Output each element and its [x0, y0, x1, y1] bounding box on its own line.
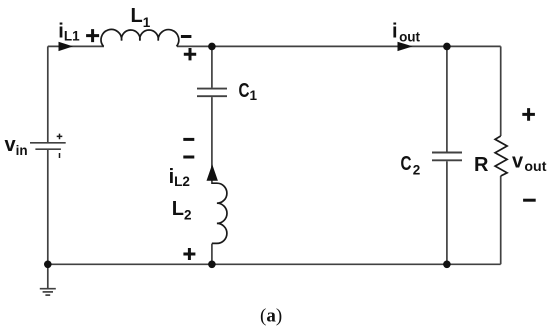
svg-text:R: R	[474, 154, 489, 176]
capacitor C1	[197, 89, 227, 97]
minus sign above L2	[183, 156, 194, 159]
wire top horizontal	[48, 45, 501, 47]
wire C2 branch vertical	[446, 46, 448, 264]
svg-text:iL2: iL2	[169, 166, 190, 189]
battery minus mark	[59, 153, 61, 158]
plus sign below L2	[183, 248, 195, 260]
node top right	[443, 43, 451, 51]
current arrow i_out	[398, 42, 413, 51]
capacitor C2	[432, 153, 462, 161]
wire right vertical	[500, 46, 502, 264]
plus sign left of L1	[86, 29, 99, 42]
battery plus mark	[57, 134, 63, 140]
minus sign below C1	[183, 138, 194, 141]
resistor R	[495, 136, 507, 176]
svg-text:L1: L1	[131, 5, 151, 30]
current arrow i_L2	[207, 164, 218, 181]
inductor L2	[212, 183, 227, 243]
svg-text:C1: C1	[239, 80, 258, 103]
inductor L1	[101, 29, 179, 46]
minus sign vout	[523, 199, 536, 202]
minus sign right of L1	[181, 35, 192, 38]
svg-text:vin: vin	[5, 134, 28, 158]
plus sign vout	[522, 108, 535, 121]
svg-text:L2: L2	[172, 198, 192, 222]
node top middle	[208, 43, 216, 51]
wire bottom horizontal	[48, 263, 501, 265]
svg-text:(a): (a)	[260, 306, 282, 327]
node bottom left	[44, 261, 52, 269]
plus sign above C1	[184, 48, 196, 60]
ground	[40, 264, 56, 295]
current arrow i_L1	[59, 42, 74, 51]
svg-text:vout: vout	[512, 151, 547, 174]
node bottom right	[443, 261, 451, 269]
svg-text:iL1: iL1	[58, 20, 80, 43]
svg-text:C2: C2	[401, 153, 421, 178]
voltage source Vin battery	[30, 143, 66, 149]
wire left vertical	[47, 46, 49, 264]
wire middle vertical (C1/L2 branch)	[211, 46, 213, 264]
svg-text:iout: iout	[392, 20, 421, 44]
node bottom middle	[208, 261, 216, 269]
